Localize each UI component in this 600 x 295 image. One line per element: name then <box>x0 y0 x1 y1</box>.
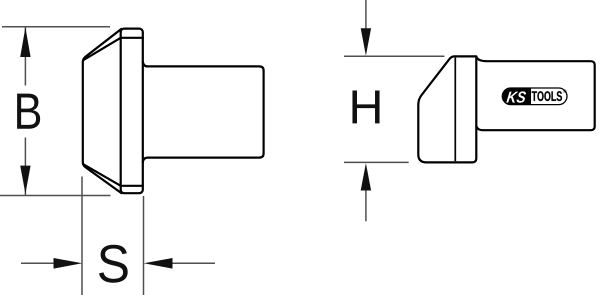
B dimension line lower segment <box>24 138 26 196</box>
collar crease line <box>454 58 456 162</box>
label H <box>352 91 379 124</box>
flange top chamfer line <box>121 37 143 39</box>
S left extension line <box>81 177 83 295</box>
dimension H <box>344 0 444 221</box>
B arrow up <box>20 27 30 57</box>
cone and collar outline <box>418 56 476 162</box>
S right extension line <box>143 196 145 295</box>
logo registered mark <box>563 90 567 94</box>
logo TOOLS lettering <box>532 91 562 101</box>
body cylinder outline <box>476 57 594 130</box>
B top extension line <box>2 26 110 28</box>
cone bottom crease <box>83 164 121 186</box>
dimension S <box>21 177 215 295</box>
B arrow down <box>20 166 30 194</box>
H upper dimension line <box>365 0 367 29</box>
S right tail line <box>171 262 215 264</box>
H lower dimension line <box>365 190 367 221</box>
dimension B <box>0 27 111 196</box>
H arrow up <box>361 163 371 190</box>
H arrow down <box>361 28 371 55</box>
cone silhouette <box>83 29 122 193</box>
S arrow left <box>54 258 83 269</box>
shank cylinder <box>143 62 264 162</box>
H bottom extension line <box>344 161 409 163</box>
S left tail line <box>21 262 56 264</box>
B bottom extension line <box>0 195 111 197</box>
label S <box>99 245 128 283</box>
H top extension line <box>344 55 444 57</box>
logo black left field <box>502 88 531 105</box>
logo KS lettering <box>506 91 526 102</box>
cone top crease <box>83 38 121 60</box>
flange bottom chamfer line <box>121 185 143 187</box>
KS TOOLS logo <box>502 88 567 105</box>
label B <box>17 94 40 129</box>
B dimension line upper segment <box>24 27 26 86</box>
S arrow right <box>144 258 173 269</box>
flange (collar disc) <box>121 29 143 194</box>
logo pill outline <box>502 88 567 105</box>
